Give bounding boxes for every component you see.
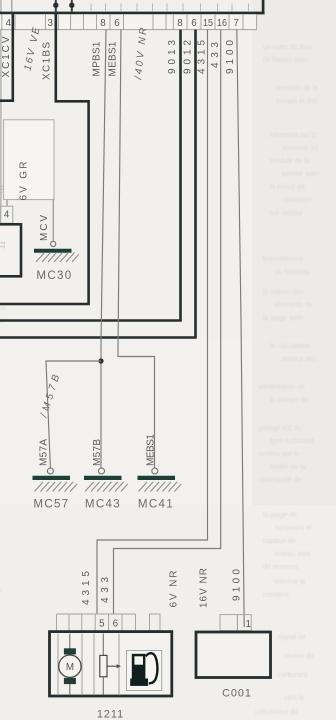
svg-text:carburant et: carburant et xyxy=(275,525,312,532)
svg-text:MC57: MC57 xyxy=(33,498,69,511)
svg-text:continu par le: continu par le xyxy=(258,451,300,458)
svg-text:1: 1 xyxy=(245,619,250,630)
svg-text:8: 8 xyxy=(100,18,106,29)
extra pin cell of 1211 xyxy=(150,614,161,631)
fuel pump icon window xyxy=(134,656,143,664)
junction node B xyxy=(69,2,74,7)
empty pin cell of C001 xyxy=(220,615,237,631)
svg-text:M57B: M57B xyxy=(92,439,103,466)
svg-text:6: 6 xyxy=(114,18,120,29)
wire from motor bottom brush xyxy=(69,684,71,695)
ground MC57 hatching xyxy=(35,482,78,492)
svg-text:16V NR: 16V NR xyxy=(199,568,210,608)
svg-text:branchement: branchement xyxy=(263,256,303,263)
ground MC30 terminal circle xyxy=(51,241,56,246)
svg-text:16: 16 xyxy=(217,18,227,29)
svg-text:du reservoir: du reservoir xyxy=(263,564,300,571)
connector pin row bottom edge xyxy=(0,29,257,31)
svg-text:un mam de fonc: un mam de fonc xyxy=(263,44,313,51)
fuel pump icon base xyxy=(130,679,148,686)
svg-text:elements de: elements de xyxy=(275,302,313,309)
ground MC43 terminal circle xyxy=(99,468,105,474)
svg-text:MC41: MC41 xyxy=(138,498,174,511)
svg-text:7: 7 xyxy=(233,18,238,29)
junction node A xyxy=(53,2,58,7)
svg-text:la: la xyxy=(0,587,3,594)
svg-text:M57A: M57A xyxy=(39,439,50,466)
svg-text:informe le: informe le xyxy=(275,579,305,586)
pin 4 of left component xyxy=(1,206,13,223)
svg-text:niveau du: niveau du xyxy=(284,653,314,660)
ground MC43 bar xyxy=(84,476,122,480)
ground MC43 hatching xyxy=(85,482,128,492)
pin cell 1 of C001 xyxy=(237,615,251,631)
function box 6V GR xyxy=(4,120,54,200)
svg-text:MCV: MCV xyxy=(39,215,50,241)
connector pin row background xyxy=(0,14,257,29)
wire to fuel level sender xyxy=(102,634,104,656)
svg-text:alimentation de: alimentation de xyxy=(258,384,305,391)
svg-text:MC30: MC30 xyxy=(36,269,72,282)
svg-text:le circuit de: le circuit de xyxy=(270,184,305,191)
wire 9100 from pin 7 to connector C001 xyxy=(237,30,244,627)
svg-text:module de la: module de la xyxy=(270,158,310,165)
ground MC30 hatching xyxy=(36,252,79,262)
svg-text:mo: mo xyxy=(0,305,6,312)
svg-text:signal de: signal de xyxy=(278,634,306,641)
svg-text:commande de: commande de xyxy=(258,477,302,484)
connector pin row dividers xyxy=(2,14,257,29)
wire XC1BS from pin 3 down and right xyxy=(0,13,89,304)
svg-text:11: 11 xyxy=(0,240,7,249)
svg-text:sur moteur: sur moteur xyxy=(270,210,304,217)
wire MPBS1 from pin 8 to ground MC43 xyxy=(101,30,106,469)
pin row of component 1211 xyxy=(57,614,136,631)
component 1211 fuel pump assembly box xyxy=(50,632,172,696)
svg-text:calculateur du: calculateur du xyxy=(255,709,298,716)
svg-text:niveau mini: niveau mini xyxy=(275,551,310,558)
svg-text:5: 5 xyxy=(99,619,105,630)
svg-text:le calculateur: le calculateur xyxy=(270,343,311,350)
wire 4315 from pin 15 to pin 5 of 1211 xyxy=(97,30,208,614)
svg-text:433: 433 xyxy=(100,577,111,603)
svg-text:6: 6 xyxy=(113,619,119,630)
svg-text:carburant: carburant xyxy=(278,672,307,679)
wire 433 from pin 16 to pin 6 of 1211 xyxy=(114,30,221,614)
internal wire with node A xyxy=(55,0,57,12)
svg-text:du faisceau: du faisceau xyxy=(275,269,310,276)
svg-text:15: 15 xyxy=(203,18,213,29)
wire 9012 from pin 6 exits left xyxy=(0,30,196,338)
svg-text:pompe avec: pompe avec xyxy=(282,171,320,178)
svg-text:la jauge de: la jauge de xyxy=(263,512,297,519)
motor M bottom brush xyxy=(64,678,76,684)
svg-text:reservoir au: reservoir au xyxy=(282,145,319,152)
ground MC30 bar xyxy=(34,249,72,253)
ground MC57 terminal circle xyxy=(47,468,53,474)
wire XC1CV from pin 4 exits left xyxy=(0,13,13,101)
svg-text:1211: 1211 xyxy=(97,709,124,720)
svg-text:vers le: vers le xyxy=(284,695,304,702)
svg-text:la pompe de: la pompe de xyxy=(270,397,308,404)
wire MCV to ground MC30 xyxy=(52,200,54,241)
svg-text:pompe et des: pompe et des xyxy=(276,98,318,105)
svg-text:C001: C001 xyxy=(222,687,252,699)
connector C001 box xyxy=(196,632,271,678)
sender wiper arrow xyxy=(107,665,117,667)
ground MC41 bar xyxy=(138,476,176,480)
component top box (cut off at top) xyxy=(0,0,265,14)
fuel level sender resistor xyxy=(100,655,107,676)
svg-text:MC43: MC43 xyxy=(85,498,121,511)
svg-text:MEBS1: MEBS1 xyxy=(108,41,119,76)
svg-text:de liaison avec: de liaison avec xyxy=(263,57,309,64)
svg-text:capteur de: capteur de xyxy=(263,538,296,545)
motor M circle xyxy=(59,655,81,677)
svg-text:elements sur le: elements sur le xyxy=(270,132,317,139)
svg-text:XC1BS: XC1BS xyxy=(42,42,53,80)
motor M top brush xyxy=(64,648,76,654)
fuel pump icon body xyxy=(132,654,146,679)
svg-text:type a courant: type a courant xyxy=(270,438,314,445)
component box left (cut off) xyxy=(0,224,21,276)
svg-text:carburant: carburant xyxy=(282,197,311,204)
wire 9013 from pin 8 exits left xyxy=(0,30,181,321)
internal wire with node B xyxy=(71,0,73,12)
wire stub into pin 4 of left component xyxy=(6,200,8,207)
svg-text:8: 8 xyxy=(177,18,183,29)
svg-text:MPBS1: MPBS1 xyxy=(92,41,103,76)
junction node on MPBS1 wire xyxy=(98,358,103,363)
svg-text:6V NR: 6V NR xyxy=(169,571,180,608)
wire from sender bottom xyxy=(102,677,104,695)
svg-text:la jauge avec: la jauge avec xyxy=(263,315,304,322)
svg-text:4: 4 xyxy=(4,210,10,221)
fuel pump icon frame xyxy=(127,651,162,691)
svg-text:18: 18 xyxy=(0,185,6,194)
ground MC57 bar xyxy=(33,476,71,480)
svg-text:433: 433 xyxy=(210,42,221,68)
wire branch M57A to ground MC57 xyxy=(46,361,101,468)
internal wire stub top left xyxy=(11,0,13,12)
scan edge left xyxy=(0,0,2,256)
svg-text:MEBS1: MEBS1 xyxy=(146,434,157,466)
svg-text:combine: combine xyxy=(263,592,289,599)
ground MC41 terminal circle xyxy=(152,468,158,474)
wire to motor top brush xyxy=(69,634,71,649)
svg-text:moteur des: moteur des xyxy=(282,356,317,363)
svg-text:3: 3 xyxy=(47,18,53,29)
internal compartment dividers of 1211 xyxy=(58,634,119,696)
ground MC41 hatching xyxy=(139,482,182,492)
svg-text:boitier de la: boitier de la xyxy=(270,464,306,471)
fuel pump icon hose xyxy=(146,653,158,683)
svg-text:4: 4 xyxy=(6,18,12,29)
svg-text:6: 6 xyxy=(191,18,197,29)
svg-text:la masse des: la masse des xyxy=(263,289,304,296)
svg-text:menture de la: menture de la xyxy=(276,85,318,92)
svg-text:M: M xyxy=(66,662,74,673)
svg-text:XC1CV: XC1CV xyxy=(1,36,12,77)
svg-text:gavage est du: gavage est du xyxy=(258,425,301,432)
internal cell dividers above edge xyxy=(91,4,249,12)
wire MEBS1 from pin 6 to ground MC41 xyxy=(118,30,155,469)
